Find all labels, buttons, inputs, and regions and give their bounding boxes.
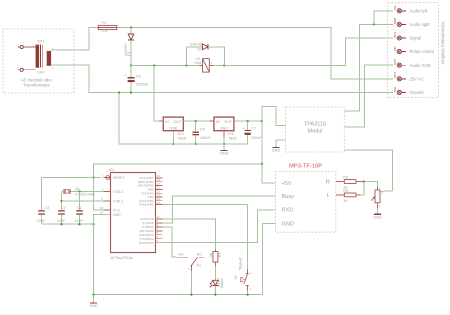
ground symbol below potentiometer xyxy=(377,208,379,214)
svg-text:MP3-TF-16P: MP3-TF-16P xyxy=(289,163,322,169)
dashed box Klemmleiste Wallbox xyxy=(388,3,439,98)
node junction C5 xyxy=(195,120,197,122)
wire TPA3118 output gnd to Audio GND terminal xyxy=(344,65,393,127)
terminal Relay control xyxy=(397,50,401,54)
wire R3 to mix node xyxy=(360,182,364,195)
svg-text:TPA3118: TPA3118 xyxy=(304,122,326,128)
svg-text:10nF: 10nF xyxy=(37,219,46,223)
wire crystal left to C4 column xyxy=(62,190,64,192)
svg-text:GND: GND xyxy=(220,152,229,156)
svg-text:RESET: RESET xyxy=(113,176,124,180)
node junction +5V to MCU xyxy=(261,163,263,165)
wire +5V row to MCU VCC xyxy=(94,164,262,210)
svg-text:15pF: 15pF xyxy=(57,219,66,223)
svg-text:Relay control: Relay control xyxy=(410,49,435,54)
mp3 module MP3-TF-16P xyxy=(276,171,336,232)
capacitor C5 100nF xyxy=(195,121,197,131)
wire MP3 Busy to MCU PD5 xyxy=(163,196,276,223)
MCU reset inversion bubble xyxy=(106,176,110,180)
svg-text:VIO: VIO xyxy=(393,45,397,51)
svg-text:GRY: GRY xyxy=(393,59,397,65)
svg-text:S: S xyxy=(188,267,190,271)
svg-text:Status: Status xyxy=(220,278,224,288)
svg-text:IN: IN xyxy=(165,120,169,124)
svg-text:C6: C6 xyxy=(136,75,141,79)
svg-text:1K: 1K xyxy=(343,199,348,203)
svg-text:D1: D1 xyxy=(127,51,131,56)
node junction C1 column xyxy=(78,190,80,192)
svg-text:Audio right: Audio right xyxy=(410,22,431,27)
wire IC3 GND stem xyxy=(172,131,174,138)
svg-text:R2: R2 xyxy=(343,176,348,180)
wire MCU PD6 to LED resistor R1 xyxy=(163,219,216,250)
diode D2 1N4148 flyback xyxy=(187,47,203,66)
capacitor C4 15pF xyxy=(58,210,65,211)
svg-text:'Repeat': 'Repeat' xyxy=(239,257,243,270)
node junction mixed audio xyxy=(363,180,365,182)
node junction audio left/right xyxy=(373,23,375,25)
MCU right pin stubs xyxy=(156,177,163,179)
svg-text:25V AC: 25V AC xyxy=(410,76,424,81)
node junction +24V unregulated xyxy=(130,64,132,66)
wire mix node to potentiometer xyxy=(364,182,378,188)
wire MCU GND pin to rail xyxy=(94,215,104,225)
fuse F4 xyxy=(98,25,117,29)
svg-text:C7: C7 xyxy=(251,127,256,131)
wire TR1 secondary bottom to ground rail xyxy=(51,65,393,92)
relay coil K1 xyxy=(199,65,203,67)
wire relay coil to junction xyxy=(213,65,225,67)
svg-text:15pF: 15pF xyxy=(75,219,84,223)
terminal Audio GND xyxy=(397,63,401,67)
resistor R3 1K xyxy=(336,194,345,196)
diode D1 1N4007 xyxy=(130,28,132,34)
wire +5V column down to MP3 module xyxy=(262,121,276,183)
svg-text:1N4148: 1N4148 xyxy=(189,42,202,46)
svg-text:3 A: 3 A xyxy=(102,29,108,33)
svg-text:C5: C5 xyxy=(200,127,205,131)
voltage regulator IC2 7805 xyxy=(214,117,234,131)
LED1 Status xyxy=(214,266,216,280)
MCU left pin stubs xyxy=(104,177,111,179)
node junction rail to MCU GND xyxy=(92,223,94,225)
svg-text:BLK: BLK xyxy=(393,86,397,91)
terminal Audio left xyxy=(397,9,401,13)
svg-text:IN: IN xyxy=(216,120,220,124)
svg-text:7815: 7815 xyxy=(178,136,186,140)
svg-text:R1: R1 xyxy=(218,252,222,257)
wire S3 to ground row xyxy=(247,291,249,295)
transformer TR1 xyxy=(36,45,40,68)
svg-text:12: 12 xyxy=(157,201,161,205)
wire IC3 OUT row xyxy=(183,120,214,122)
wire +24V row to relay coil xyxy=(131,65,199,67)
ground symbol below IC2 xyxy=(223,144,225,151)
svg-text:1K: 1K xyxy=(209,252,213,257)
svg-text:WHT: WHT xyxy=(393,72,397,79)
svg-text:+: + xyxy=(124,74,126,78)
wire IC2 GND stem xyxy=(223,131,225,138)
wire MP3 RXD to MCU PD0 xyxy=(163,210,276,243)
node junction fuse row / D1 xyxy=(130,26,132,28)
svg-text:S3: S3 xyxy=(234,275,238,279)
wire +5V jog to TPA3118 module power xyxy=(262,106,286,125)
wire MCU PD4 to relay contact xyxy=(163,227,177,257)
node junction rail to ground row xyxy=(118,91,120,93)
wire MP3 GND to ground row xyxy=(94,223,276,294)
svg-text:BLU: BLU xyxy=(393,32,397,37)
svg-text:10: 10 xyxy=(100,211,104,215)
svg-text:GND: GND xyxy=(373,215,382,219)
capacitor C6 2200uF xyxy=(130,66,132,78)
svg-text:OUT: OUT xyxy=(174,120,182,124)
wire TPA3118 audio input from volume pot xyxy=(344,150,392,191)
svg-text:24V: 24V xyxy=(194,61,201,65)
svg-text:XTAL1: XTAL1 xyxy=(113,199,123,203)
svg-text:(AIN0)PB0: (AIN0)PB0 xyxy=(139,203,154,207)
dashed box AC Netzteil oder Transformator xyxy=(3,29,74,93)
wire fuse output to 25V AC terminal xyxy=(117,28,393,79)
wire RESET to C3 xyxy=(42,177,102,179)
node junction RESET pull-up xyxy=(92,176,94,178)
svg-text:NO: NO xyxy=(178,253,184,257)
wire pot wiper to TPA input xyxy=(384,190,393,192)
svg-text:C4: C4 xyxy=(61,206,66,210)
wire 24VAC from TR1 secondary top to fuse xyxy=(51,28,98,51)
svg-text:Transformator: Transformator xyxy=(23,83,50,88)
svg-text:R: R xyxy=(326,180,330,186)
svg-text:XTAL2: XTAL2 xyxy=(113,190,123,194)
svg-text:GRN: GRN xyxy=(393,18,397,24)
svg-text:K1: K1 xyxy=(197,263,201,267)
node junction flyback diode right xyxy=(223,64,225,66)
svg-text:GND: GND xyxy=(272,149,281,153)
node junction tap to regulator IC3 xyxy=(153,64,155,66)
svg-text:20: 20 xyxy=(100,206,104,210)
wire XTAL1 row xyxy=(62,200,104,202)
svg-text:C3: C3 xyxy=(44,206,49,210)
svg-text:Ground: Ground xyxy=(410,90,425,95)
svg-text:L: L xyxy=(327,193,330,199)
node junction C6 to ground rail xyxy=(130,91,132,93)
node junction flyback diode left xyxy=(185,64,187,66)
node junction C7 xyxy=(246,120,248,122)
wire rail down to ground symbol xyxy=(93,224,95,294)
wire raw DC down to IC3 IN xyxy=(154,66,163,122)
svg-text:GND: GND xyxy=(113,213,121,217)
svg-text:100uF: 100uF xyxy=(251,136,262,140)
terminal Signal xyxy=(397,36,401,40)
svg-text:ATTiny2313a: ATTiny2313a xyxy=(111,256,134,260)
svg-text:+5V: +5V xyxy=(282,181,292,187)
svg-text:D2: D2 xyxy=(197,48,202,52)
ground symbol at TPA3118 xyxy=(276,139,286,141)
svg-text:GND: GND xyxy=(282,221,294,227)
svg-text:VCC: VCC xyxy=(113,209,121,213)
node junction bottom ground row xyxy=(92,293,94,295)
svg-text:Q1: Q1 xyxy=(75,187,80,191)
wire XTAL2 row xyxy=(70,190,103,192)
svg-text:GND: GND xyxy=(169,127,177,131)
svg-text:Klemmleiste Wallbox: Klemmleiste Wallbox xyxy=(441,22,446,65)
terminal Audio right xyxy=(397,22,401,26)
resistor R1 1K xyxy=(214,250,216,252)
potentiometer R4 volume xyxy=(377,187,379,190)
capacitor C1 15pF xyxy=(79,191,81,210)
wire audio left branch xyxy=(374,11,393,25)
svg-text:4.9152 MHz: 4.9152 MHz xyxy=(75,192,96,196)
microcontroller IC1 ATtiny2313 xyxy=(111,173,156,253)
svg-text:F4: F4 xyxy=(102,21,106,25)
svg-text:R3: R3 xyxy=(343,189,348,193)
relay contact K1 xyxy=(177,256,188,258)
ground symbol below MCU xyxy=(93,295,95,303)
terminal pin 2 of TR1 xyxy=(20,68,23,71)
wire IC2 OUT +5V row xyxy=(234,120,262,122)
wire TPA3118 output to audio terminals xyxy=(344,24,393,111)
amplifier module TPA3118 xyxy=(286,107,345,152)
resistor R2 1K xyxy=(336,181,345,183)
wire MCU PB0 to pushbutton S3 xyxy=(163,205,248,270)
svg-text:C1: C1 xyxy=(77,206,82,210)
svg-text:Audio left: Audio left xyxy=(410,8,428,13)
capacitor C7 100uF xyxy=(247,121,249,130)
terminal 25V AC xyxy=(397,77,401,81)
svg-text:Busy: Busy xyxy=(282,194,295,200)
svg-text:GND: GND xyxy=(89,304,98,308)
voltage regulator IC3 7815 xyxy=(163,117,183,131)
svg-text:7805: 7805 xyxy=(228,136,236,140)
wire relay row to Signal terminal xyxy=(224,38,393,66)
svg-text:TR1: TR1 xyxy=(37,39,45,44)
svg-text:IC1: IC1 xyxy=(109,168,115,172)
crystal Q1 4.9152 MHz xyxy=(63,189,65,194)
node junction XTAL1 to C4 column xyxy=(60,200,62,202)
pushbutton S3 Repeat xyxy=(247,270,249,274)
wire LED to ground row xyxy=(214,286,216,295)
node junction +5V branch xyxy=(261,120,263,122)
svg-text:Audio GND: Audio GND xyxy=(410,63,431,68)
terminal pin 1 of TR1 xyxy=(20,45,23,48)
svg-text:OUT: OUT xyxy=(224,120,232,124)
svg-text:2200uF: 2200uF xyxy=(136,83,150,87)
svg-text:GND: GND xyxy=(220,127,228,131)
wire decoupling rail under caps xyxy=(42,223,94,225)
svg-text:NC: NC xyxy=(197,253,203,257)
svg-text:Modul: Modul xyxy=(308,129,323,135)
capacitor C3 10nF xyxy=(38,210,45,211)
svg-text:(RXD)PD0: (RXD)PD0 xyxy=(139,241,154,245)
svg-text:YEL: YEL xyxy=(393,5,397,11)
wire regulator ground rail xyxy=(119,93,247,145)
terminal Ground xyxy=(397,90,401,94)
wire relay contact common to ground row xyxy=(190,271,192,295)
svg-text:Signal: Signal xyxy=(410,36,422,41)
svg-text:100nF: 100nF xyxy=(200,136,211,140)
svg-text:RXD: RXD xyxy=(282,208,294,214)
svg-text:+: + xyxy=(242,126,244,130)
svg-text:24V: 24V xyxy=(38,71,45,75)
